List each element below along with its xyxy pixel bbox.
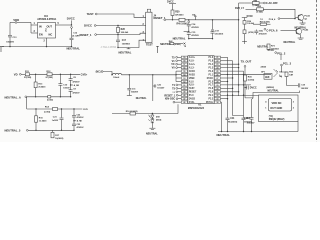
resistor R52 xyxy=(285,72,288,77)
svg-text:NEUTRAL_5: NEUTRAL_5 xyxy=(5,128,21,132)
svg-text:P1.2: P1.2 xyxy=(208,71,213,73)
svg-text:TEST: TEST xyxy=(87,12,95,16)
svg-text:470/50V: 470/50V xyxy=(77,116,85,119)
wire xyxy=(97,14,146,17)
svg-text:240k0: 240k0 xyxy=(261,66,267,69)
resistor R17 xyxy=(52,130,54,132)
svg-text:TX_OUT: TX_OUT xyxy=(241,60,252,64)
wire xyxy=(244,34,246,44)
node PCL_3 xyxy=(281,64,283,66)
svg-text:(NC): (NC) xyxy=(96,72,101,74)
resistor R36 xyxy=(243,21,246,25)
wire NEUTRAL rail xyxy=(2,46,71,48)
svg-text:DVSS: DVSS xyxy=(189,99,196,101)
capacitor C25 xyxy=(153,85,154,87)
svg-text:(0.040): (0.040) xyxy=(47,98,53,101)
capacitor C21 xyxy=(61,109,63,118)
svg-text:58: 58 xyxy=(183,61,185,63)
svg-text:48: 48 xyxy=(183,94,185,97)
svg-text:A_NE: A_NE xyxy=(74,84,80,87)
LED D4 xyxy=(151,118,153,119)
ground xyxy=(298,37,304,39)
capacitor C12 xyxy=(70,37,74,39)
IC U1 body xyxy=(188,56,214,104)
svg-text:NC(0603): NC(0603) xyxy=(228,121,237,123)
resistor R41 xyxy=(244,75,247,81)
resistor R19 xyxy=(48,96,51,98)
svg-text:EN: EN xyxy=(39,33,43,37)
svg-text:53: 53 xyxy=(183,78,185,80)
svg-text:RESET: RESET xyxy=(189,92,197,94)
transistor Q1 xyxy=(298,15,304,21)
node PCL_2 xyxy=(275,52,277,54)
svg-text:P1.5: P1.5 xyxy=(208,81,213,83)
svg-text:IN: IN xyxy=(39,25,42,29)
svg-text:(NR502): (NR502) xyxy=(267,87,275,89)
svg-text:C/V5: C/V5 xyxy=(83,109,89,111)
resistor R13 xyxy=(35,74,37,82)
svg-text:P1.4: P1.4 xyxy=(208,63,213,66)
node A_NEUTRAL xyxy=(74,120,76,122)
wire xyxy=(244,81,246,87)
wire xyxy=(281,29,297,31)
svg-text:1n/50V: 1n/50V xyxy=(52,120,59,122)
svg-text:46: 46 xyxy=(183,101,185,104)
svg-text:R30: R30 xyxy=(175,11,180,13)
svg-text:OUT GND: OUT GND xyxy=(270,106,282,110)
off-page tick xyxy=(0,46,4,48)
node C-PCA_6 xyxy=(264,28,266,30)
LED D3 xyxy=(151,114,153,115)
svg-text:U1: U1 xyxy=(198,103,202,107)
wire xyxy=(118,40,146,47)
capacitor C19 xyxy=(212,20,214,29)
svg-text:TEST: TEST xyxy=(189,88,195,90)
svg-text:C/VD>: C/VD> xyxy=(81,73,88,76)
wire xyxy=(51,96,71,98)
resistor R71 xyxy=(267,44,270,50)
capacitor C9 xyxy=(70,85,72,90)
wire xyxy=(221,94,259,96)
wire xyxy=(31,24,38,26)
svg-text:XIN-OSC: XIN-OSC xyxy=(165,98,176,101)
svg-text:23: 23 xyxy=(216,64,218,66)
svg-text:DV8_LY: DV8_LY xyxy=(235,7,244,10)
svg-text:BUF: BUF xyxy=(265,77,270,79)
wire xyxy=(221,60,233,62)
svg-text:P1.3: P1.3 xyxy=(208,67,213,69)
capacitor C29 xyxy=(246,86,248,90)
svg-text:30: 30 xyxy=(216,88,218,90)
capacitor C23 xyxy=(73,121,75,124)
U1 left pin boxes xyxy=(181,56,187,58)
capacitor C14 xyxy=(188,21,190,23)
svg-text:NEUTRAL: NEUTRAL xyxy=(136,97,147,100)
wire xyxy=(112,113,130,115)
wire xyxy=(246,8,257,10)
wire xyxy=(176,77,181,79)
svg-text:MSP430AF423: MSP430AF423 xyxy=(188,107,205,110)
svg-text:100n: 100n xyxy=(259,30,264,32)
svg-text:470/50V: 470/50V xyxy=(77,126,85,129)
svg-text:DVCC: DVCC xyxy=(67,17,75,21)
wire xyxy=(221,70,244,72)
wire xyxy=(245,91,300,98)
svg-text:55: 55 xyxy=(183,71,185,73)
svg-text:P1.7: P1.7 xyxy=(208,85,213,87)
U1 right pin boxes xyxy=(214,56,220,58)
wire xyxy=(221,77,233,79)
svg-text:100/25V: 100/25V xyxy=(301,88,309,90)
svg-text:VREF: VREF xyxy=(189,78,196,80)
testpoint T5 xyxy=(184,43,186,45)
wire xyxy=(239,2,245,4)
svg-text:P1.8: P1.8 xyxy=(208,61,213,63)
svg-text:10k0603: 10k0603 xyxy=(271,49,280,51)
wire xyxy=(103,72,112,75)
svg-text:NEUTRAL_A: NEUTRAL_A xyxy=(5,96,21,100)
svg-text:1C.0403: 1C.0403 xyxy=(39,119,47,122)
wire xyxy=(238,20,240,96)
wire xyxy=(96,25,146,27)
svg-text:1k(0603): 1k(0603) xyxy=(55,138,63,140)
resistor R28 xyxy=(117,26,119,28)
svg-text:P1.1: P1.1 xyxy=(208,74,213,76)
svg-text:470/50V: 470/50V xyxy=(191,26,199,29)
svg-text:DVCC: DVCC xyxy=(250,87,257,90)
capacitor C10 xyxy=(59,74,61,83)
svg-text:C-PCA_6: C-PCA_6 xyxy=(266,28,278,32)
svg-text:NEUTRAL: NEUTRAL xyxy=(173,36,186,40)
capacitor C26 xyxy=(242,117,246,119)
LED D6 xyxy=(279,75,282,78)
capacitor C22 xyxy=(73,109,75,115)
svg-text:DVCC: DVCC xyxy=(207,78,214,80)
svg-text:(0.040): (0.040) xyxy=(257,11,264,14)
capacitor C15 xyxy=(187,32,191,34)
svg-text:NEUTRAL: NEUTRAL xyxy=(146,132,158,135)
resistor R38b xyxy=(243,30,246,34)
svg-text:52: 52 xyxy=(183,81,185,83)
svg-text:RESET_1: RESET_1 xyxy=(80,33,93,37)
capacitor C24 xyxy=(226,117,230,119)
svg-text:(1.0k0): (1.0k0) xyxy=(44,111,51,113)
svg-text:54: 54 xyxy=(183,73,185,76)
wire xyxy=(27,96,48,98)
resistor R11 xyxy=(25,73,29,76)
svg-text:2C(360): 2C(360) xyxy=(46,77,54,79)
wire xyxy=(221,101,222,103)
svg-text:100nH: 100nH xyxy=(113,77,120,79)
wire xyxy=(175,74,176,75)
svg-text:21: 21 xyxy=(216,57,218,59)
svg-text:DVTAL: DVTAL xyxy=(206,101,214,104)
svg-text:APC866-3.3TRG1: APC866-3.3TRG1 xyxy=(37,18,57,21)
svg-text:59: 59 xyxy=(183,57,185,59)
wire xyxy=(263,9,298,17)
svg-text:PCA1: PCA1 xyxy=(304,15,310,18)
wire xyxy=(26,97,28,109)
capacitor C8 xyxy=(70,74,72,78)
svg-text:(Y1): (Y1) xyxy=(269,116,273,118)
wire xyxy=(221,80,228,82)
LED D5 xyxy=(274,69,278,73)
svg-text:470/50V: 470/50V xyxy=(191,34,199,37)
svg-text:(4750): (4750) xyxy=(248,31,254,34)
svg-text:(0603): (0603) xyxy=(156,119,162,121)
wire xyxy=(56,24,72,26)
svg-text:(10n50V): (10n50V) xyxy=(215,33,224,35)
wire xyxy=(176,80,181,82)
svg-text:P1.0: P1.0 xyxy=(189,95,194,97)
svg-text:NEUTRAL: NEUTRAL xyxy=(119,51,132,55)
svg-text:100/25V: 100/25V xyxy=(131,92,139,94)
resistor R30 xyxy=(171,10,174,16)
svg-text:A1.3-: A1.3- xyxy=(189,66,195,69)
svg-text:PCL_3: PCL_3 xyxy=(283,61,292,65)
wire xyxy=(221,87,233,89)
capacitor C17 xyxy=(117,35,119,40)
wire xyxy=(71,27,73,29)
wire xyxy=(17,21,31,23)
svg-text:A2.0-: A2.0- xyxy=(189,84,195,87)
resistor R40 xyxy=(179,18,185,21)
resistor R12 xyxy=(47,73,52,76)
wire xyxy=(221,67,239,69)
svg-text:100/25V: 100/25V xyxy=(244,121,252,123)
inductor L1 xyxy=(113,73,122,75)
wire xyxy=(221,84,252,86)
svg-text:J-TAG-14PINS: J-TAG-14PINS xyxy=(101,46,117,49)
svg-text:TEST: TEST xyxy=(146,43,153,47)
wire xyxy=(185,19,239,21)
ground xyxy=(128,48,130,49)
svg-text:51: 51 xyxy=(183,85,185,87)
svg-text:57: 57 xyxy=(183,64,185,66)
svg-text:A_NE: A_NE xyxy=(77,120,83,123)
wire xyxy=(221,91,239,93)
wire NEUTRAL rail xyxy=(218,131,298,133)
wire xyxy=(244,24,246,30)
transistor Q2 xyxy=(296,28,302,34)
ground xyxy=(300,22,306,24)
connector J4 xyxy=(146,12,152,42)
svg-text:SMQ32 (8KHZ): SMQ32 (8KHZ) xyxy=(269,119,285,121)
node A_NEUTRAL xyxy=(71,84,73,86)
svg-text:C-AC-OFF: C-AC-OFF xyxy=(266,2,278,5)
wire xyxy=(245,2,253,4)
wire xyxy=(221,56,228,58)
svg-text:10/50V: 10/50V xyxy=(63,87,70,89)
oscillator module box xyxy=(259,95,299,122)
svg-text:PCL_2: PCL_2 xyxy=(277,51,286,55)
svg-text:XTAL: XTAL xyxy=(189,101,195,104)
svg-text:34: 34 xyxy=(216,101,218,104)
capacitor C16 xyxy=(252,98,253,99)
svg-text:24: 24 xyxy=(216,67,218,70)
sheet border xyxy=(316,0,318,142)
svg-text:32: 32 xyxy=(216,95,218,97)
svg-text:10n/25V: 10n/25V xyxy=(157,88,165,90)
svg-text:(0.980): (0.980) xyxy=(174,44,181,46)
wire xyxy=(221,98,228,100)
svg-text:50: 50 xyxy=(183,88,185,90)
resistor R35 xyxy=(257,8,264,11)
resistor R15 xyxy=(35,109,37,116)
oscillator Y1 xyxy=(269,99,292,112)
wire xyxy=(174,43,184,45)
svg-text:PCA2: PCA2 xyxy=(303,29,309,32)
svg-text:56: 56 xyxy=(183,68,185,70)
svg-text:470/50V: 470/50V xyxy=(73,91,81,94)
wire xyxy=(172,16,174,20)
svg-text:31: 31 xyxy=(216,92,218,94)
svg-text:DVCC: DVCC xyxy=(247,16,254,18)
wire xyxy=(166,19,179,21)
wire xyxy=(184,30,189,32)
svg-text:NEUTRAL: NEUTRAL xyxy=(284,41,296,44)
wire xyxy=(28,129,74,131)
wire xyxy=(221,63,239,65)
capacitor C11 xyxy=(128,75,130,88)
svg-text:OUT: OUT xyxy=(47,25,53,29)
svg-text:AVSS: AVSS xyxy=(189,73,195,76)
svg-text:22: 22 xyxy=(216,61,218,63)
wire xyxy=(71,40,73,47)
svg-text:U3: U3 xyxy=(44,14,48,18)
svg-text:P1.6: P1.6 xyxy=(208,88,213,90)
svg-text:VD: VD xyxy=(14,72,18,76)
svg-text:VDD NC: VDD NC xyxy=(272,101,282,105)
svg-text:NC: NC xyxy=(49,33,53,37)
wire xyxy=(136,113,179,115)
wire xyxy=(176,70,181,72)
svg-text:P2.0: P2.0 xyxy=(208,92,213,94)
wire xyxy=(173,101,175,103)
capacitor C30 xyxy=(255,30,257,31)
capacitor C13 xyxy=(8,34,12,36)
svg-text:100/25V: 100/25V xyxy=(6,41,14,43)
resistor R34 xyxy=(252,2,259,5)
svg-text:47: 47 xyxy=(183,98,185,101)
svg-text:A1.0+: A1.0+ xyxy=(189,56,196,59)
wire xyxy=(151,123,153,128)
svg-text:470n50V: 470n50V xyxy=(259,32,268,35)
wire xyxy=(221,74,272,76)
svg-text:47k0603: 47k0603 xyxy=(175,13,184,16)
svg-text:A1.0-: A1.0- xyxy=(189,60,195,63)
svg-text:33: 33 xyxy=(216,99,218,101)
node C-AC-OFF xyxy=(264,2,266,4)
svg-text:DVCC: DVCC xyxy=(84,24,92,28)
capacitor C18 xyxy=(297,83,299,87)
svg-text:R40 100k0: R40 100k0 xyxy=(177,23,189,26)
svg-text:AVCC: AVCC xyxy=(189,70,196,73)
wire xyxy=(244,87,246,98)
off-page tick xyxy=(157,46,159,53)
svg-text:P2.1: P2.1 xyxy=(208,95,213,97)
svg-text:14R: 14R xyxy=(289,74,293,77)
svg-text:27: 27 xyxy=(216,78,218,80)
svg-text:29: 29 xyxy=(216,85,218,87)
wire xyxy=(189,38,213,40)
svg-text:DVCC: DVCC xyxy=(167,2,174,4)
svg-text:NEUTRAL: NEUTRAL xyxy=(160,43,172,46)
svg-text:100.0k0: 100.0k0 xyxy=(121,32,129,34)
svg-text:A1.0: A1.0 xyxy=(189,80,194,83)
svg-text:28: 28 xyxy=(216,81,218,83)
svg-text:P2.2: P2.2 xyxy=(208,99,213,101)
wire xyxy=(176,74,181,76)
wire xyxy=(175,71,177,81)
wire xyxy=(21,73,25,75)
wire xyxy=(46,38,48,47)
wire xyxy=(97,33,146,34)
wire xyxy=(30,73,48,75)
svg-text:100/N03: 100/N03 xyxy=(122,43,131,45)
svg-text:NEUTRAL: NEUTRAL xyxy=(268,89,280,92)
svg-text:(0.060): (0.060) xyxy=(248,80,255,82)
wire xyxy=(122,74,177,76)
wire xyxy=(30,22,32,33)
svg-text:470/50V: 470/50V xyxy=(73,81,81,84)
svg-text:NEUTRAL: NEUTRAL xyxy=(67,47,81,51)
svg-text:2C0403: 2C0403 xyxy=(38,86,46,89)
svg-text:2C(360): 2C(360) xyxy=(24,77,32,79)
svg-text:PCA_4: PCA_4 xyxy=(269,18,276,21)
wire xyxy=(287,77,299,86)
svg-text:49: 49 xyxy=(183,91,185,94)
svg-text:P1.0: P1.0 xyxy=(208,57,213,59)
svg-text:NEUTRAL: NEUTRAL xyxy=(217,133,231,137)
svg-text:26: 26 xyxy=(216,74,218,76)
wire xyxy=(152,75,154,101)
wire xyxy=(52,73,80,75)
svg-text:A1.2+: A1.2+ xyxy=(189,63,196,66)
svg-text:25: 25 xyxy=(216,71,218,73)
